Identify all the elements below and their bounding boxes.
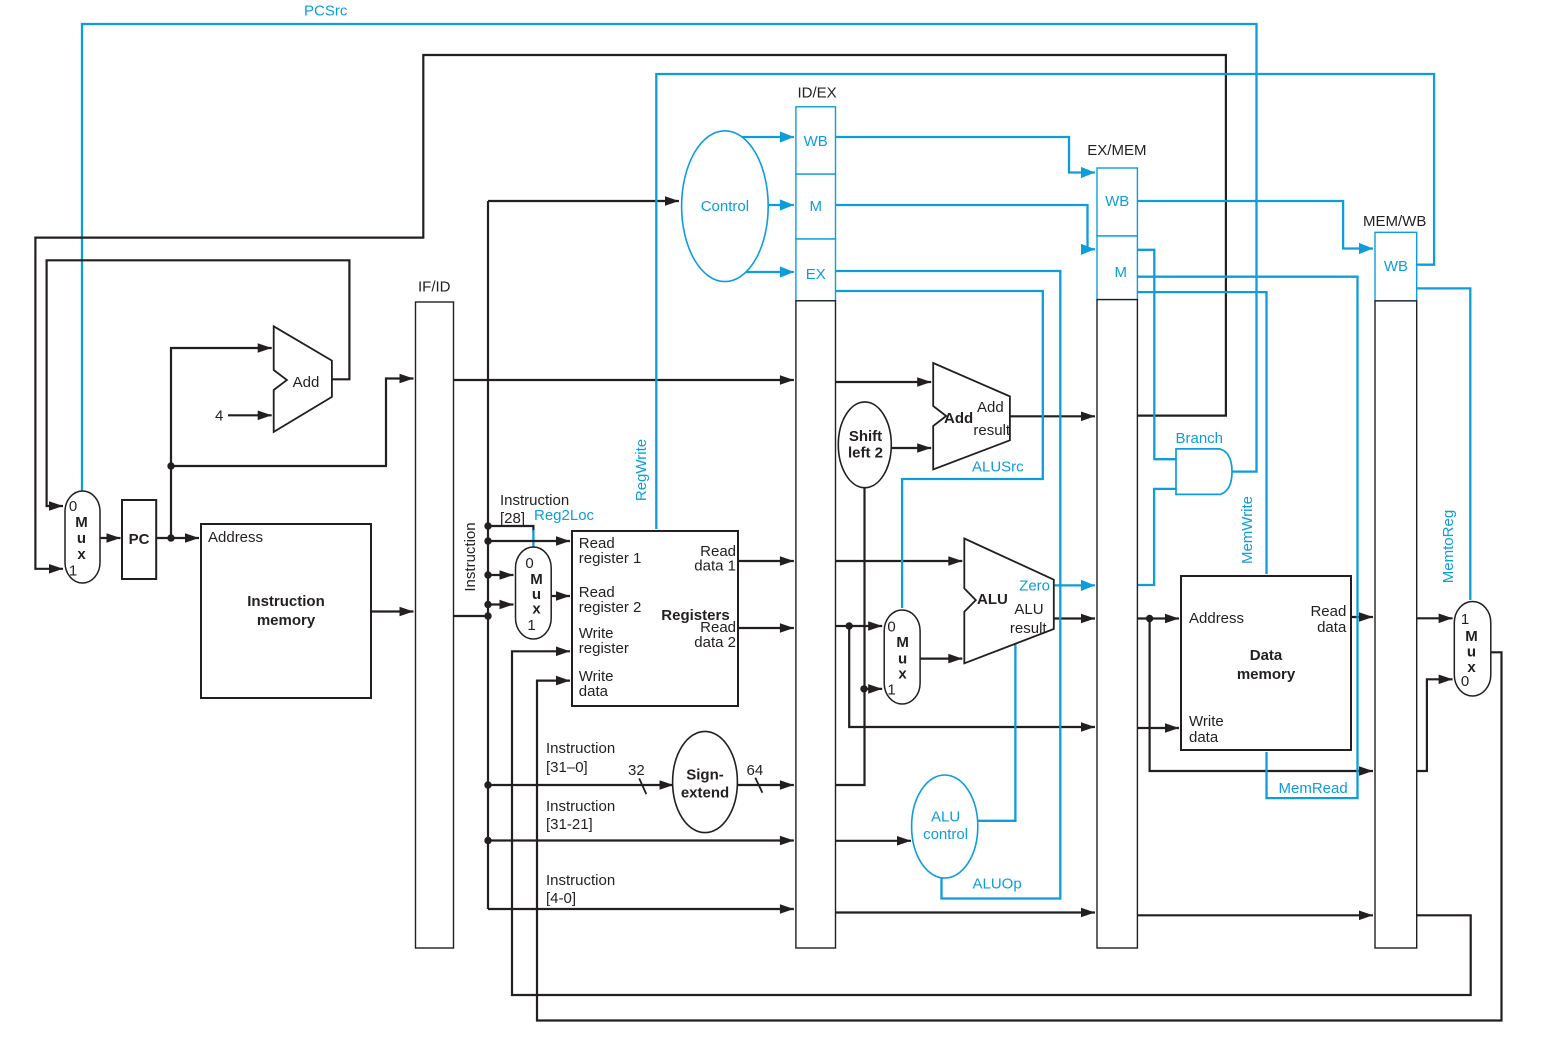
Registers box [572,531,738,706]
svg-text:0: 0 [69,498,77,515]
ALUSrc mux [884,610,920,704]
wire Add result to EX/MEM [1010,415,1095,417]
wire instruction bus to Control unit [488,200,679,202]
wire MemtoReg mux output back to Registers write data [537,652,1502,1020]
wire write register number MEM/WB back to Registers write register [512,651,1471,995]
wire PC value up to Add input 1 [171,348,272,538]
wire Read data 2 ID/EX to ALUSrc mux input 0 and down to EX/MEM write data [836,625,850,627]
wire WB control EX/MEM to MEM/WB [1137,201,1373,249]
svg-text:memory: memory [1237,666,1296,683]
wire ALU control output to ALU control input [978,642,1016,821]
svg-text:M: M [1465,628,1478,645]
svg-text:0: 0 [1461,673,1469,690]
svg-text:Reg2Loc: Reg2Loc [534,507,595,524]
svg-text:1: 1 [527,617,535,634]
svg-text:Read: Read [1310,603,1346,620]
IF/ID pipeline register [416,302,454,948]
wire Control to ID/EX EX [745,271,794,273]
ID/EX pipeline register WB section [796,107,836,174]
wire RegWrite MEM/WB WB to Registers [656,74,1434,529]
wire Instruction [31-21] to ID/EX [488,839,794,841]
Reg2Loc mux [516,547,552,639]
MemtoReg mux [1454,602,1491,697]
MEM/WB pipeline register WB section [1375,232,1417,301]
svg-text:WB: WB [804,133,828,150]
svg-text:ALUOp: ALUOp [973,876,1022,893]
svg-text:Write: Write [1189,713,1224,730]
ID/EX pipeline register EX section [796,239,836,301]
svg-text:32: 32 [628,762,645,779]
svg-text:MEM/WB: MEM/WB [1363,213,1426,230]
EX/MEM pipeline register main bar [1097,300,1137,948]
svg-text:data: data [1189,729,1219,746]
svg-text:Instruction: Instruction [546,872,615,889]
wire ALUSrc EX field to ALUSrc mux select [836,291,1043,608]
wire PC output to instruction memory address [156,537,199,539]
svg-text:1: 1 [1461,611,1469,628]
svg-text:Data: Data [1250,647,1283,664]
wire read data MEM/WB to MemtoReg mux input 1 [1417,617,1453,619]
wire ALUSrc mux output to ALU input 2 [920,657,962,659]
svg-text:u: u [1467,644,1476,661]
Branch AND gate [1176,449,1232,495]
wire Instruction [31-0] to Sign-extend [488,784,674,786]
svg-text:ALU: ALU [1014,601,1043,618]
svg-text:Sign-: Sign- [686,767,724,784]
svg-text:memory: memory [257,612,316,629]
PC register [122,500,156,579]
svg-text:data: data [1317,619,1347,636]
bus width slash 64 [755,778,762,793]
ALU control ellipse [912,775,978,878]
wire write data EX/MEM to data memory [1137,727,1179,729]
svg-text:Address: Address [1189,610,1244,627]
svg-text:data: data [579,683,609,700]
svg-text:Add: Add [977,399,1004,416]
wire Read data 1 Registers to ID/EX [738,560,794,562]
wire Reg2Loc mux output to Read register 2 [551,595,570,597]
wire ALUOp EX field to ALU control [836,271,1061,899]
wire Sign-extend output to ID/EX [738,784,794,786]
svg-text:MemWrite: MemWrite [1239,496,1256,564]
Shift left 2 ellipse [838,402,891,488]
wire ALU result bypass MEM/WB to MemtoReg mux input 0 [1417,679,1453,771]
svg-text:Add: Add [944,410,973,427]
Add-result adder [933,363,1010,470]
svg-text:x: x [898,666,907,683]
svg-text:Add: Add [293,374,320,391]
svg-text:EX/MEM: EX/MEM [1087,142,1146,159]
wire Instruction [4-0] EX/MEM to MEM/WB [1137,914,1373,916]
wire instruction to Read register 1 [488,540,570,542]
wire Zero flag EX/MEM to AND gate input 2 [1137,489,1176,585]
Control unit ellipse [682,131,769,282]
svg-text:64: 64 [747,762,764,779]
svg-text:Address: Address [208,529,263,546]
wire Control to ID/EX WB [742,136,794,138]
wire PC value ID/EX to Add-result adder input 1 [836,381,932,383]
wire PC mux output to PC [100,537,121,539]
wire MemtoReg MEM/WB WB to MemtoReg mux select [1417,288,1471,600]
wire Reg2Loc select blue segment into mux top [532,530,534,547]
svg-text:M: M [809,198,822,215]
svg-text:x: x [77,546,86,563]
svg-text:PC: PC [129,531,150,548]
svg-text:result: result [973,422,1011,439]
wire ALU result to EX/MEM [1054,617,1095,619]
wire branch to ALUSrc mux input 1 [864,688,882,690]
junction dot at PC output [167,534,174,541]
wire Read data 1 ID/EX to ALU input 1 [836,560,963,562]
wire Instruction [28] to Reg2Loc mux select (black part) [488,526,533,532]
wire M control ID/EX to EX/MEM [836,205,1096,249]
wire Control to ID/EX M [768,204,794,206]
svg-text:Zero: Zero [1019,578,1050,595]
wire PC value IF/ID to ID/EX [454,379,794,381]
svg-text:Instruction: Instruction [247,593,325,610]
svg-text:IF/ID: IF/ID [418,279,451,296]
ID/EX pipeline register main bar [796,301,836,948]
junction dot read data 2 [846,622,853,629]
wire Read data 2 Registers to ID/EX [738,627,794,629]
wire MemWrite EX/MEM M to data memory write port [1137,292,1266,574]
ID/EX pipeline register M section [796,174,836,239]
instruction bus vertical [487,201,489,909]
bus width slash 32 [639,778,646,794]
wire Instruction [31-21] ID/EX to ALU control [836,840,912,842]
instruction memory box [201,524,371,698]
wire PCSrc control: AND gate output up and across top to PC mux select [82,24,1257,491]
wire read data memory to MEM/WB [1351,616,1373,618]
svg-text:[4-0]: [4-0] [546,890,576,907]
svg-text:data 2: data 2 [694,634,736,651]
svg-text:ALU: ALU [977,591,1008,608]
svg-text:RegWrite: RegWrite [633,439,650,501]
svg-text:Instruction: Instruction [462,522,479,591]
wire Branch control EX/MEM M to AND gate input 1 [1137,250,1176,459]
svg-text:ALU: ALU [931,809,960,826]
Add adder for PC+4 [274,326,332,432]
svg-text:[28]: [28] [500,510,525,527]
svg-text:data 1: data 1 [694,558,736,575]
svg-text:EX: EX [806,266,826,283]
svg-text:u: u [77,530,86,547]
svg-text:WB: WB [1384,258,1408,275]
wire instruction IF/ID to instruction bus [454,615,489,617]
junction dot on PC vertical [167,462,174,469]
EX/MEM pipeline register WB section [1097,168,1137,236]
svg-text:Shift: Shift [849,428,882,445]
svg-text:register 1: register 1 [579,550,642,567]
wire WB control ID/EX to EX/MEM [836,137,1096,173]
wire Zero flag ALU to EX/MEM [1054,584,1095,586]
svg-text:ALUSrc: ALUSrc [972,459,1024,476]
Data memory box [1181,576,1351,750]
wire branch target: EX/MEM output loop back to PC mux input 1 [35,55,1226,569]
wire Instruction [4-0] ID/EX to EX/MEM [836,911,1096,913]
svg-text:ID/EX: ID/EX [798,85,837,102]
svg-text:MemtoReg: MemtoReg [1440,510,1457,583]
svg-text:M: M [75,514,88,531]
PC source mux [65,491,100,583]
wire instruction to Reg2Loc mux input 1 [488,603,514,605]
junction dot ALU result [1146,615,1153,622]
wire Shift left 2 output to Add-result adder input 2 [892,447,931,449]
svg-text:[31-21]: [31-21] [546,816,593,833]
svg-text:extend: extend [681,785,729,802]
wire sign-extended value from ID/EX up to Shift left 2 with branch to ALU mux input 1 [836,488,865,785]
MEM/WB pipeline register main bar [1375,301,1417,948]
wire instruction memory output to IF/ID [371,610,414,612]
ALU [964,539,1054,664]
svg-text:1: 1 [69,563,77,580]
wire constant 4 to Add input 2 [228,414,272,416]
svg-text:Instruction: Instruction [546,740,615,757]
svg-text:Control: Control [701,198,749,215]
svg-text:4: 4 [215,408,223,425]
EX/MEM pipeline register M section [1097,236,1137,300]
svg-text:x: x [532,601,541,618]
junction dots on instruction bus [484,522,491,529]
svg-text:left 2: left 2 [848,445,883,462]
wire instruction to Reg2Loc mux input 0 [488,574,514,576]
wire PC+4: Add output loop back to PC mux input 0 [47,260,350,506]
svg-text:M: M [1114,264,1127,281]
svg-text:[31–0]: [31–0] [546,759,588,776]
wire PC value to IF/ID register [171,379,414,467]
svg-text:WB: WB [1105,193,1129,210]
svg-text:M: M [896,634,909,651]
svg-text:0: 0 [525,555,533,572]
junction dot on shift-left vertical [860,685,867,692]
wire Instruction [4-0] to ID/EX [488,908,794,910]
svg-text:Instruction: Instruction [546,798,615,815]
svg-text:PCSrc: PCSrc [304,3,348,20]
svg-text:MemRead: MemRead [1279,780,1348,797]
svg-text:register 2: register 2 [579,599,642,616]
svg-text:control: control [923,826,968,843]
Sign-extend ellipse [673,731,738,832]
svg-text:register: register [579,640,629,657]
svg-text:1: 1 [887,682,895,699]
svg-text:result: result [1010,620,1048,637]
wire ALU result EX/MEM to data memory address with bypass branch [1137,617,1179,619]
svg-text:Branch: Branch [1176,430,1224,447]
svg-text:0: 0 [887,618,895,635]
wire MemRead EX/MEM M to data memory read port [1137,277,1357,798]
